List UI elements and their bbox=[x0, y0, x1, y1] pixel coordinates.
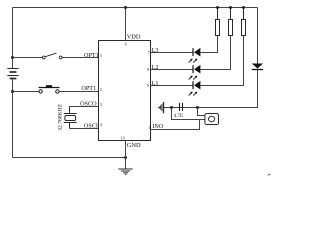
wire: mic rail segment bbox=[164, 107, 198, 109]
node: junction mic rail left bbox=[170, 106, 173, 109]
wire: OPT1 upper row right segment bbox=[62, 57, 98, 59]
LED L2 bbox=[189, 65, 201, 80]
node: dot R2 on rail bbox=[229, 6, 232, 9]
diode D1 bbox=[252, 64, 263, 70]
wire: diode to mic rail bbox=[198, 70, 258, 108]
ground bbox=[118, 169, 132, 174]
wire: L1 to LED bbox=[151, 85, 193, 87]
wire: left vertical from rail to battery bbox=[12, 8, 14, 69]
wire: INO pin wire with jog up to speaker lower terminal bbox=[151, 120, 200, 130]
label VDD bbox=[127, 33, 141, 40]
wire: LED L3 to resistor R1 bbox=[200, 36, 217, 53]
wire: OSCI pin wire bbox=[70, 128, 99, 130]
svg-text:OPT1: OPT1 bbox=[81, 85, 96, 92]
node: junction bottom rail / GND stem bbox=[124, 156, 127, 159]
value label 4.7U bbox=[174, 114, 184, 119]
label L3 bbox=[152, 47, 159, 54]
crystal Y1 bbox=[64, 107, 77, 129]
pin 4 bbox=[100, 122, 103, 127]
wire: right rail down to diode bbox=[257, 8, 259, 64]
label OPT1 (upper) bbox=[84, 52, 99, 59]
wire: LED L2 to resistor R2 bbox=[200, 36, 230, 70]
node: junction battery bottom / pushbutton row bbox=[11, 90, 14, 93]
wire: OSCO pin wire bbox=[70, 106, 99, 108]
label OPT1 (lower) bbox=[81, 85, 96, 92]
svg-text:GND: GND bbox=[127, 142, 141, 149]
wire: GND stem bbox=[125, 141, 127, 170]
wire: VDD top rail bbox=[13, 7, 258, 9]
pin 5 bbox=[100, 102, 102, 107]
svg-text:32.768KHZ: 32.768KHZ bbox=[57, 103, 63, 130]
pin 6 bbox=[125, 42, 127, 47]
LED L3 bbox=[189, 48, 201, 63]
svg-text:8: 8 bbox=[147, 67, 149, 72]
svg-text:2: 2 bbox=[100, 87, 102, 92]
svg-text:OSCI: OSCI bbox=[84, 123, 98, 130]
wire: junction right down to speaker box upper terminal bbox=[198, 108, 205, 116]
wire: LED L1 to resistor R3 bbox=[200, 36, 243, 86]
capacitor C1 bbox=[180, 103, 183, 111]
wire: VDD stem bbox=[125, 8, 127, 41]
wire: L3 to LED bbox=[151, 52, 193, 54]
resistor R1 bbox=[216, 8, 220, 36]
pin 7 bbox=[148, 50, 150, 55]
artifact mark bottom right bbox=[268, 174, 271, 175]
wire: OPT1 lower row left segment bbox=[13, 91, 40, 93]
pin 8 bbox=[147, 67, 149, 72]
wire: left vertical from battery to bottom rail bbox=[12, 79, 14, 158]
LED L1 bbox=[189, 81, 201, 96]
svg-text:6: 6 bbox=[125, 42, 127, 47]
pushbutton S2 (OPT1) bbox=[39, 85, 60, 93]
pin 9 bbox=[147, 83, 149, 88]
label L1 bbox=[152, 80, 159, 87]
node: dot VDD on rail bbox=[124, 6, 127, 9]
pin 10 bbox=[121, 136, 125, 141]
svg-text:5: 5 bbox=[100, 102, 102, 107]
resistor R2 bbox=[229, 8, 233, 36]
node: junction battery top / switch OPT1 row bbox=[11, 56, 14, 59]
wire: L2 to LED bbox=[151, 69, 193, 71]
value label 32.768KHZ bbox=[57, 103, 63, 130]
label L2 bbox=[152, 64, 159, 71]
svg-text:VDD: VDD bbox=[127, 33, 141, 40]
wire: OPT1 lower row right segment bbox=[59, 91, 98, 93]
svg-text:9: 9 bbox=[147, 83, 149, 88]
IC U1 body bbox=[99, 41, 151, 141]
svg-text:7: 7 bbox=[148, 50, 150, 55]
label GND bbox=[127, 142, 141, 149]
label INO bbox=[152, 123, 164, 130]
svg-text:OPT1: OPT1 bbox=[84, 52, 99, 59]
battery B1 bbox=[7, 69, 18, 79]
wire: bottom ground rail bbox=[13, 157, 126, 159]
label OSCI bbox=[84, 123, 98, 130]
speaker box MIC bbox=[205, 114, 219, 125]
wire: OPT1 upper row left segment bbox=[13, 57, 43, 59]
node: dot R1 on rail bbox=[216, 6, 219, 9]
svg-text:4: 4 bbox=[100, 122, 103, 127]
svg-text:OSCO: OSCO bbox=[80, 101, 97, 108]
svg-text:10: 10 bbox=[121, 136, 125, 141]
wire: junction left down to speaker box lower terminal bbox=[172, 108, 205, 120]
pin 2 bbox=[100, 87, 102, 92]
switch S1 (toggle, OPT1) bbox=[42, 53, 62, 59]
label OSCO bbox=[80, 101, 97, 108]
resistor R3 bbox=[242, 8, 246, 36]
pin 3 bbox=[100, 53, 102, 58]
node: dot R3 on rail bbox=[242, 6, 245, 9]
pin 1 bbox=[148, 125, 150, 130]
svg-text:3: 3 bbox=[100, 53, 102, 58]
svg-text:1: 1 bbox=[148, 125, 150, 130]
node: junction mic rail right bbox=[196, 106, 199, 109]
microphone MK1 symbol (earpiece bars) bbox=[158, 102, 164, 113]
svg-text:4.7U: 4.7U bbox=[174, 114, 184, 119]
